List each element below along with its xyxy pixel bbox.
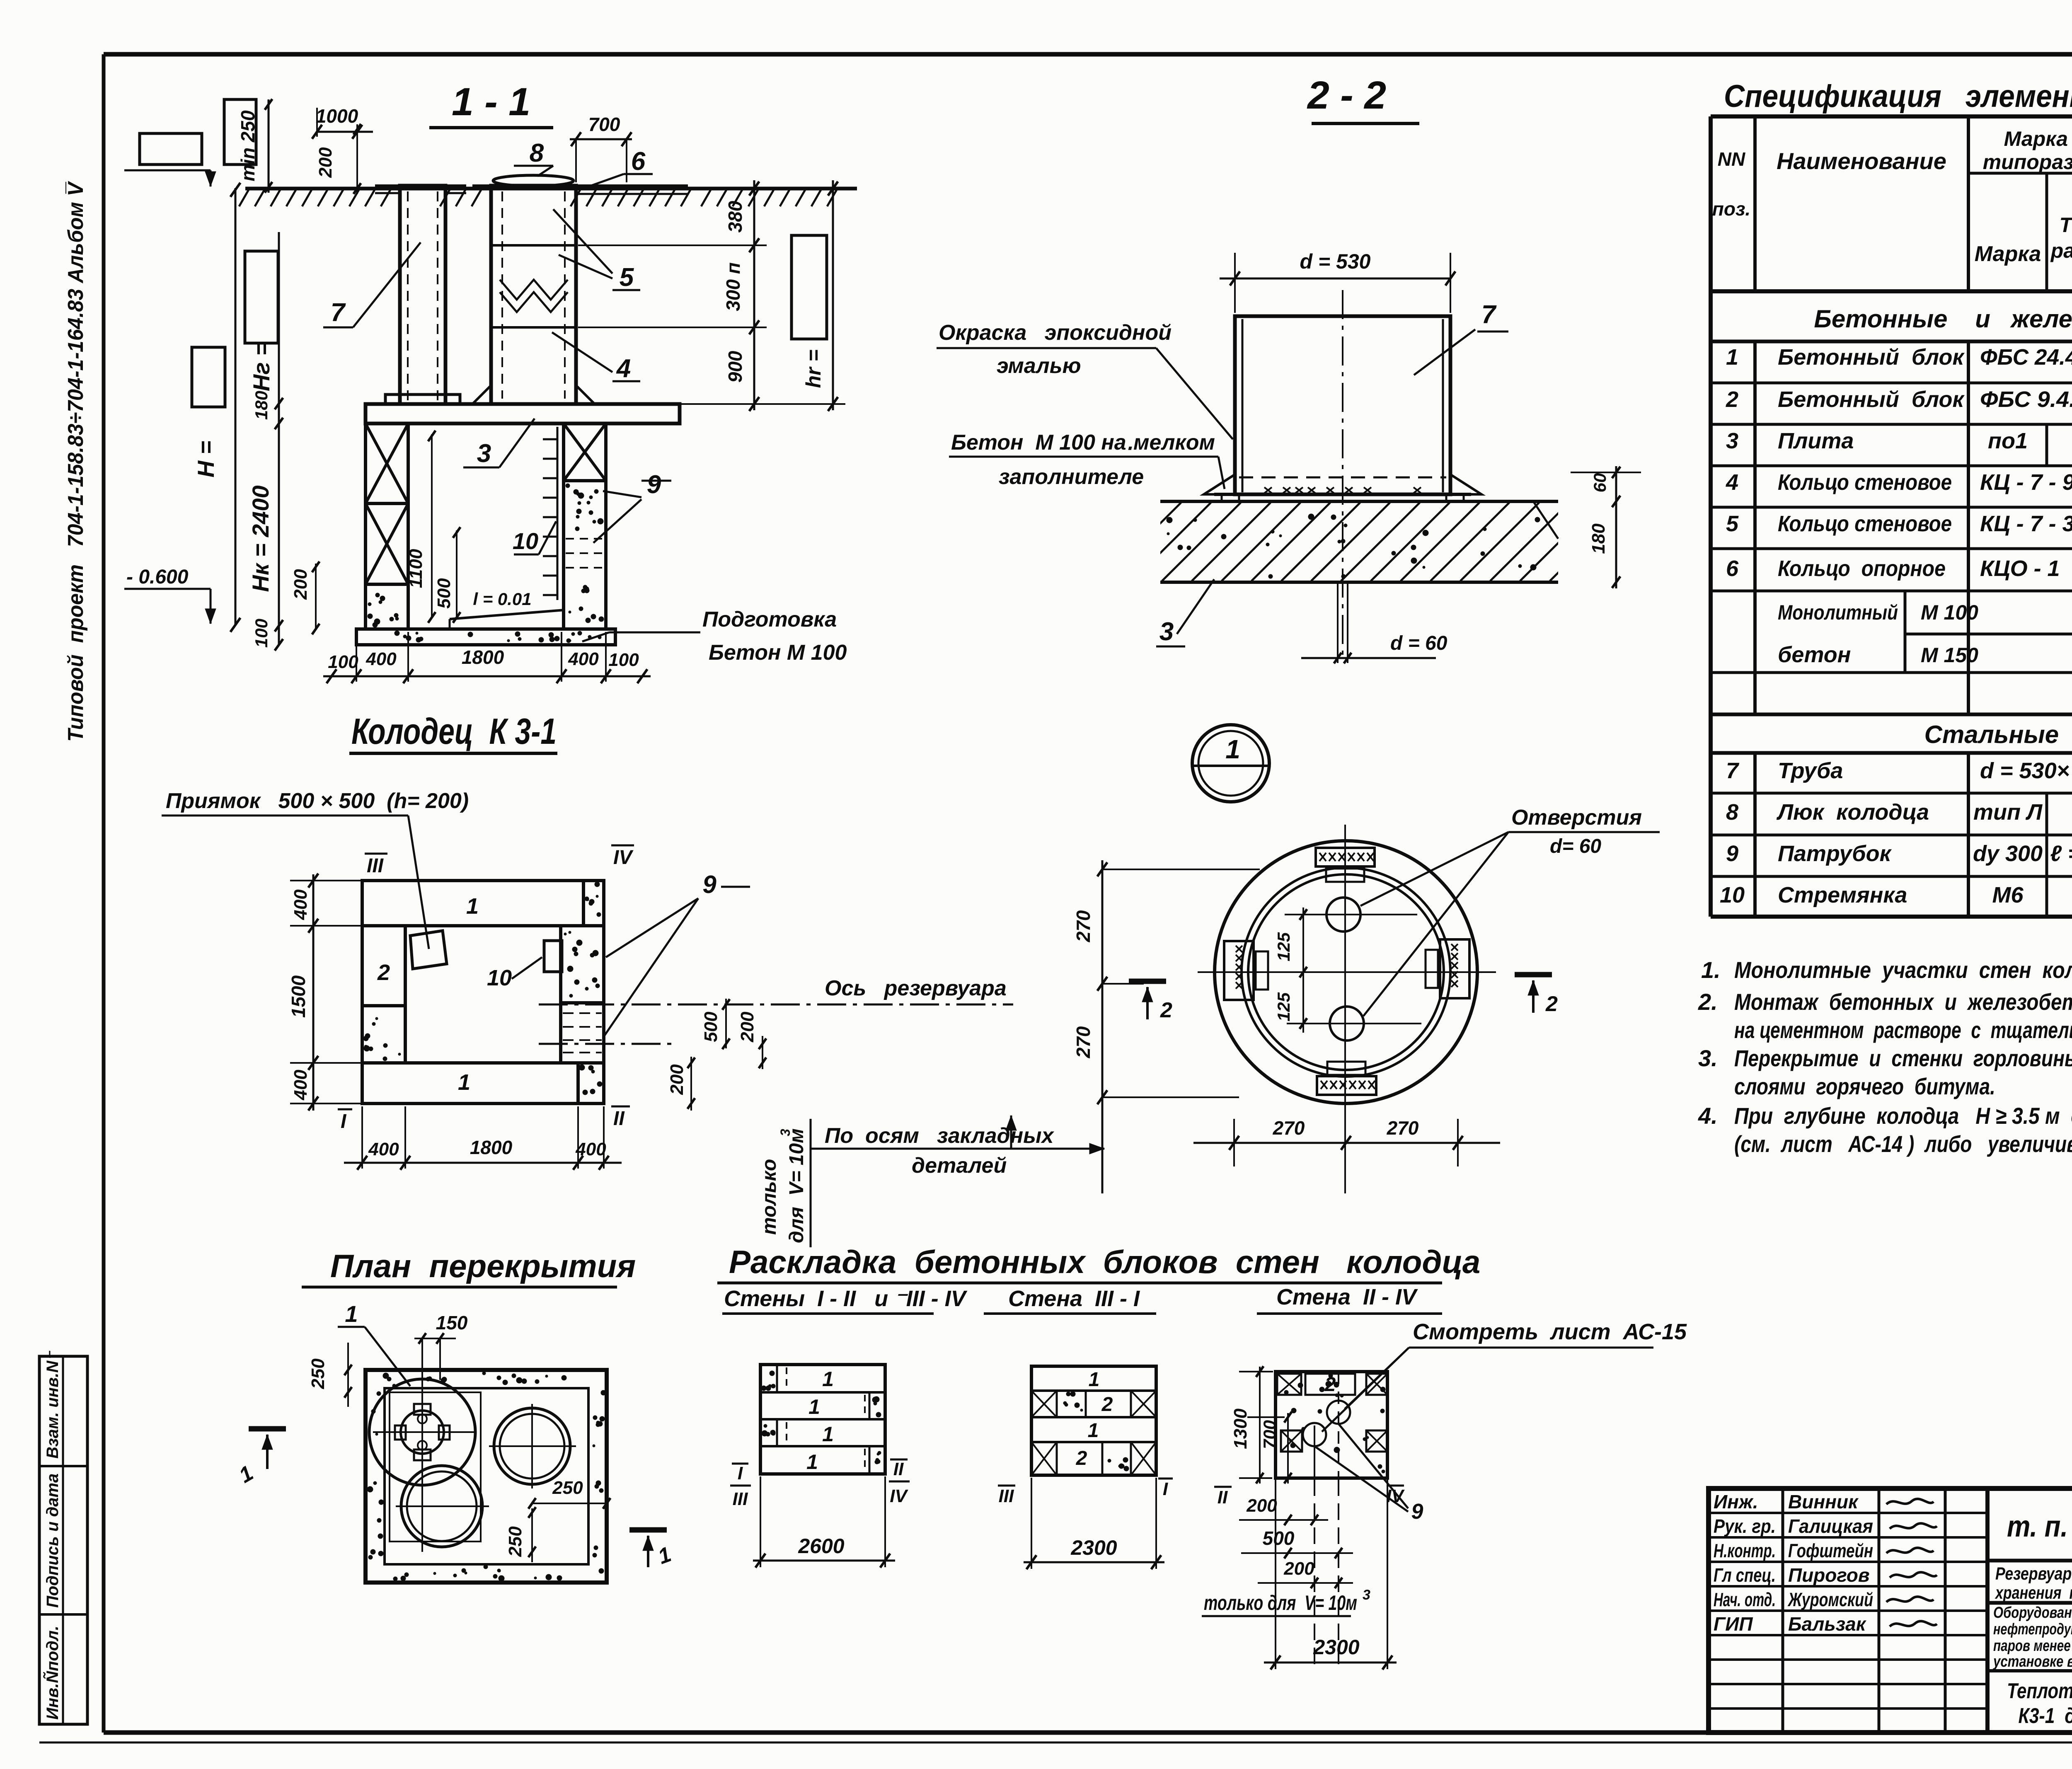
svg-text:Кольцо стеновое: Кольцо стеновое xyxy=(1778,470,1952,495)
svg-text:ФБС 24.4.6 -Т: ФБС 24.4.6 -Т xyxy=(1980,345,2072,370)
svg-text:200: 200 xyxy=(290,569,311,600)
svg-text:Марка и: Марка и xyxy=(2004,127,2072,150)
T2 mark left xyxy=(1129,981,1172,1022)
svg-text:250: 250 xyxy=(552,1478,583,1498)
svg-text:250: 250 xyxy=(308,1358,328,1389)
svg-text:Взам. инв.N⁻: Взам. инв.N⁻ xyxy=(44,1350,62,1459)
label 3 (2-2) xyxy=(1156,579,1214,646)
svg-text:1300: 1300 xyxy=(1230,1408,1251,1449)
dim 125/125 xyxy=(1274,907,1322,1033)
svg-text:ФБС 9.4.6 - Т: ФБС 9.4.6 - Т xyxy=(1980,387,2072,412)
svg-text:IV: IV xyxy=(613,847,634,869)
svg-text:КЦ - 7 - 3: КЦ - 7 - 3 xyxy=(1980,511,2072,536)
svg-text:400: 400 xyxy=(366,649,397,669)
svg-text:деталей: деталей xyxy=(912,1154,1007,1178)
svg-text:Ось резервуара: Ось резервуара xyxy=(825,976,1007,1000)
dim 200 lower left xyxy=(290,561,320,634)
dim 1100 inside xyxy=(406,431,436,623)
svg-text:ℓ = 600: ℓ = 600 xyxy=(2050,841,2072,866)
svg-text:КЦО - 1: КЦО - 1 xyxy=(1980,556,2060,581)
svg-text:Подпись и дата: Подпись и дата xyxy=(44,1474,62,1608)
svg-text:При глубине колодца Н ≥ 3.: При глубине колодца Н ≥ 3.5 м стены коло… xyxy=(1734,1103,2072,1129)
svg-text:700: 700 xyxy=(588,114,620,135)
svg-text:2: 2 xyxy=(1160,998,1172,1022)
svg-text:3: 3 xyxy=(477,439,491,468)
svg-text:II: II xyxy=(613,1108,625,1130)
svg-text:400: 400 xyxy=(568,649,599,669)
label podgotovka xyxy=(582,607,847,665)
svg-text:hr =: hr = xyxy=(802,349,825,388)
svg-text:1: 1 xyxy=(458,1070,470,1095)
svg-text:d = 60: d = 60 xyxy=(1390,632,1447,654)
label 7 xyxy=(323,242,421,327)
dim min 250 xyxy=(237,99,272,193)
wall I-II side labels xyxy=(730,1459,910,1509)
svg-text:эмалью: эмалью xyxy=(997,354,1081,378)
svg-text:М 150: М 150 xyxy=(1921,644,1978,667)
svg-text:Инж.: Инж. xyxy=(1714,1491,1758,1512)
svg-text:100: 100 xyxy=(608,650,639,670)
svg-text:II: II xyxy=(893,1459,904,1479)
svg-text:1: 1 xyxy=(345,1301,358,1327)
svg-text:5: 5 xyxy=(1726,511,1739,536)
po osyam zakladnyh xyxy=(811,1116,1104,1178)
svg-text:9: 9 xyxy=(647,470,661,499)
svg-text:только для V= 10м: только для V= 10м xyxy=(1204,1591,1357,1614)
svg-text:500: 500 xyxy=(701,1012,721,1042)
spec header texts xyxy=(1712,127,2072,276)
svg-text:2: 2 xyxy=(1726,387,1738,412)
ground line xyxy=(239,189,857,206)
svg-text:Бетон М 100: Бетон М 100 xyxy=(709,641,847,665)
svg-text:Колодец К 3-1: Колодец К 3-1 xyxy=(351,711,557,752)
svg-text:7: 7 xyxy=(1726,758,1740,783)
svg-text:нефтепродуктов с давлением нас: нефтепродуктов с давлением насыщенных xyxy=(1993,1621,2072,1638)
embedded plate left xyxy=(1224,941,1268,1000)
plan perekrytiya title xyxy=(302,1248,636,1287)
svg-text:1.: 1. xyxy=(1701,957,1721,983)
right dim chain 380/300p/900 xyxy=(578,180,845,411)
label 4 xyxy=(552,332,640,383)
svg-text:1: 1 xyxy=(1726,345,1738,370)
svg-text:I: I xyxy=(341,1111,347,1133)
label 8 xyxy=(514,139,553,176)
dim 700 xyxy=(570,114,632,182)
svg-text:3: 3 xyxy=(1159,617,1174,646)
label 6 xyxy=(586,147,653,187)
dim d=530 xyxy=(1220,250,1455,313)
floor slope line xyxy=(450,589,564,629)
hole bottom d60 xyxy=(1287,1007,1421,1041)
svg-text:3: 3 xyxy=(778,1129,793,1136)
svg-text:Винник: Винник xyxy=(1788,1491,1859,1512)
svg-text:1: 1 xyxy=(1225,734,1240,764)
dims 200/500/200 below II-IV xyxy=(1202,1479,1370,1670)
svg-text:размер: размер xyxy=(2050,239,2072,262)
svg-text:2300: 2300 xyxy=(1070,1536,1117,1559)
svg-text:IV: IV xyxy=(890,1486,908,1506)
svg-text:6: 6 xyxy=(631,147,646,176)
svg-text:Стена III - I: Стена III - I xyxy=(1008,1286,1140,1311)
svg-text:паров менее 200 мм рт ст. при: паров менее 200 мм рт ст. при подземной xyxy=(1993,1637,2072,1655)
svg-text:Пирогов: Пирогов xyxy=(1788,1564,1870,1586)
wall II-IV diagram xyxy=(1276,1372,1387,1479)
cover slab 3 xyxy=(366,404,680,423)
svg-text:180: 180 xyxy=(252,391,271,420)
stamp box A xyxy=(140,133,202,165)
okraska label xyxy=(937,321,1233,439)
section 2-2 title xyxy=(1307,73,1419,123)
wall I-II dim 2600 xyxy=(753,1476,895,1568)
svg-text:Приямок 500 × 500 (h= 200): Приямок 500 × 500 (h= 200) xyxy=(166,789,469,813)
lower pipe axis xyxy=(539,1043,678,1045)
svg-text:400: 400 xyxy=(575,1139,606,1159)
hatch circle A (manhole) xyxy=(369,1375,477,1552)
T1 mark bottom right xyxy=(629,1530,674,1569)
svg-text:Журомский: Журомский xyxy=(1787,1589,1873,1610)
svg-text:6: 6 xyxy=(1726,556,1739,581)
svg-text:500: 500 xyxy=(434,578,454,609)
svg-text:К3-1 для сухих грунтов: К3-1 для сухих грунтов xyxy=(2019,1704,2072,1728)
svg-text:Типо-: Типо- xyxy=(2060,213,2072,237)
svg-text:8: 8 xyxy=(530,139,544,167)
svg-text:слоями горячего битума.: слоями горячего битума. xyxy=(1734,1073,1995,1099)
svg-text:Инв.Ñподл.: Инв.Ñподл. xyxy=(43,1626,62,1720)
svg-text:бетон: бетон xyxy=(1778,642,1851,667)
label 10 xyxy=(513,521,556,554)
svg-text:Бетон М 100 на․мелком: Бетон М 100 на․мелком xyxy=(951,431,1215,455)
svg-text:4: 4 xyxy=(616,354,631,383)
object description cell xyxy=(1992,1604,2072,1670)
svg-text:2600: 2600 xyxy=(798,1534,844,1558)
dim 150 top xyxy=(414,1312,468,1380)
level -0.600 xyxy=(124,566,216,624)
svg-text:400: 400 xyxy=(290,1070,311,1101)
svg-text:380: 380 xyxy=(724,201,746,232)
svg-text:для V= 10м: для V= 10м xyxy=(786,1128,808,1243)
svg-text:Теплотехнический колодец: Теплотехнический колодец xyxy=(2007,1679,2072,1703)
svg-text:III: III xyxy=(367,855,384,877)
plan left dims 400/1500/400 xyxy=(288,874,369,1111)
pryamok pit xyxy=(410,931,447,969)
hole top d60 xyxy=(1285,898,1417,932)
spec rows steel xyxy=(1720,758,2072,910)
svg-text:1: 1 xyxy=(806,1450,818,1474)
doc number cell xyxy=(1987,1510,2072,1561)
dim line Hk xyxy=(247,232,283,651)
section mark circle 1 xyxy=(1192,725,1269,802)
svg-text:Бальзак: Бальзак xyxy=(1788,1613,1867,1635)
wall II-IV label II xyxy=(1214,1487,1232,1508)
svg-text:1000: 1000 xyxy=(316,105,358,127)
monolithic concrete rows xyxy=(1778,597,2072,667)
svg-text:Стремянка: Стремянка xyxy=(1778,883,1907,907)
well left wall blocks xyxy=(366,423,408,629)
svg-text:По осям закладных: По осям закладных xyxy=(825,1124,1055,1148)
svg-text:8: 8 xyxy=(1726,800,1738,825)
svg-text:Нач. отд.: Нач. отд. xyxy=(1714,1589,1776,1610)
svg-text:Отверстия: Отверстия xyxy=(1511,806,1642,830)
dim 1000 xyxy=(312,105,373,139)
svg-text:500: 500 xyxy=(1263,1527,1295,1549)
project name cell xyxy=(1987,1564,2072,1603)
smotret list AC-15 xyxy=(1322,1319,1687,1432)
circle C xyxy=(396,1466,489,1547)
svg-text:М6: М6 xyxy=(1992,883,2024,907)
signature roles xyxy=(1714,1491,1873,1635)
svg-text:Окраска эпоксидной: Окраска эпоксидной xyxy=(939,321,1172,345)
svg-text:ГИП: ГИП xyxy=(1714,1613,1753,1635)
dim 270/270 vertical xyxy=(1072,860,1260,1193)
svg-text:Наименование: Наименование xyxy=(1777,148,1946,174)
kolodec K3-1 title xyxy=(349,711,557,753)
svg-text:Патрубок: Патрубок xyxy=(1778,841,1892,866)
svg-text:1800: 1800 xyxy=(462,646,504,668)
ladder 10 xyxy=(543,427,557,600)
svg-text:10: 10 xyxy=(513,528,538,554)
right dim hr xyxy=(802,180,838,411)
K3-1 plan bottom wall xyxy=(362,1063,604,1104)
svg-text:7: 7 xyxy=(1481,300,1497,329)
section 1-1 title xyxy=(429,80,553,128)
signatures xyxy=(1886,1499,1937,1626)
wall III-I side labels xyxy=(998,1479,1173,1506)
svg-text:Плита: Плита xyxy=(1778,428,1854,453)
svg-text:9: 9 xyxy=(1726,841,1738,866)
label 7 (2-2) xyxy=(1414,300,1508,375)
dashed opening outline xyxy=(390,1392,481,1542)
svg-text:Оборудование резервуаров для х: Оборудование резервуаров для хранения xyxy=(1993,1604,2072,1621)
pipe 7 section 2-2 xyxy=(1204,290,1481,655)
pryamok label xyxy=(162,789,469,949)
embedded plate bottom xyxy=(1317,1062,1376,1095)
svg-text:270: 270 xyxy=(1387,1117,1419,1139)
svg-text:Стены I - II и ⁻III - IV: Стены I - II и ⁻III - IV xyxy=(724,1286,968,1311)
svg-text:d = 530: d = 530 xyxy=(1300,250,1371,273)
T1 mark left xyxy=(235,1429,286,1488)
svg-text:7: 7 xyxy=(331,298,346,327)
svg-text:d = 530× 7: d = 530× 7 xyxy=(1980,758,2072,783)
level mark arrow top xyxy=(124,170,216,186)
svg-text:1800: 1800 xyxy=(470,1137,513,1158)
dim 500 inside xyxy=(434,527,460,623)
dim 270/270 horizontal xyxy=(1193,1117,1500,1166)
label 3 xyxy=(463,419,535,468)
subtitle stena II-IV xyxy=(1257,1285,1442,1314)
svg-text:Типовой проект 704-1-158.83: Типовой проект 704-1-158.83÷704-1-164.83… xyxy=(64,181,88,742)
svg-text:II: II xyxy=(1218,1487,1228,1508)
svg-text:2: 2 xyxy=(1076,1447,1087,1469)
svg-text:2: 2 xyxy=(1324,1374,1336,1396)
dims 500/200 right of plan xyxy=(667,999,766,1111)
wall II-IV label IV 9 xyxy=(1314,1424,1423,1524)
svg-text:1100: 1100 xyxy=(406,549,426,588)
plan ladder 10 xyxy=(487,941,562,990)
tolko dlya V=10m3 (plan) xyxy=(758,1119,811,1247)
svg-text:2300: 2300 xyxy=(1313,1636,1359,1659)
svg-text:250: 250 xyxy=(505,1526,525,1557)
svg-text:1: 1 xyxy=(235,1461,257,1488)
stage/sheet cells xyxy=(1987,1602,2072,1733)
svg-text:Бетонные и железобетонные: Бетонные и железобетонные элементы xyxy=(1814,305,2072,333)
dim 2300 below II-IV xyxy=(1264,1479,1397,1670)
svg-text:1: 1 xyxy=(655,1542,674,1569)
dim 250 inner bottom xyxy=(505,1507,536,1562)
svg-text:150: 150 xyxy=(436,1312,468,1333)
plan bottom dims 400/1800/400 xyxy=(344,1106,622,1170)
svg-text:2: 2 xyxy=(377,960,390,985)
plan section marks xyxy=(338,845,634,1133)
svg-text:Кольцо стеновое: Кольцо стеновое xyxy=(1778,511,1952,536)
svg-text:т. п. 704 - 1 -158.83÷704-1-1: т. п. 704 - 1 -158.83÷704-1-164. 83АС xyxy=(2007,1510,2072,1543)
svg-text:по1: по1 xyxy=(1988,428,2028,453)
svg-text:200: 200 xyxy=(315,147,336,178)
svg-text:270: 270 xyxy=(1072,910,1094,942)
svg-text:Кольцо опорное: Кольцо опорное xyxy=(1778,556,1946,581)
T2 mark right xyxy=(1515,975,1558,1016)
svg-text:Н.контр.: Н.контр. xyxy=(1714,1540,1776,1561)
svg-text:Нк = 2400: Нк = 2400 xyxy=(247,485,274,592)
bottom prep slab xyxy=(356,629,615,645)
label 9 xyxy=(593,470,671,543)
svg-text:1 - 1: 1 - 1 xyxy=(452,80,530,124)
K3-1 plan right wall xyxy=(561,926,604,1063)
svg-text:установке в сухих и мокрых гр: установке в сухих и мокрых грунтах. xyxy=(1992,1653,2072,1670)
svg-text:1: 1 xyxy=(822,1423,834,1446)
svg-text:200: 200 xyxy=(667,1064,687,1095)
svg-text:2: 2 xyxy=(1101,1394,1113,1416)
svg-text:хранения нефтепродуктов емко: хранения нефтепродуктов емкостью 3, 5, 1… xyxy=(1995,1583,2072,1603)
svg-text:Галицкая: Галицкая xyxy=(1788,1515,1873,1537)
stamp box E xyxy=(792,235,827,339)
dim d=60 below xyxy=(1301,582,1447,663)
label 5 xyxy=(553,209,640,292)
svg-text:1: 1 xyxy=(1088,1420,1099,1442)
sidebar rotated stamp text xyxy=(64,181,88,742)
svg-text:Резервуары стальные горизон: Резервуары стальные горизонтальные цилин… xyxy=(1995,1564,2072,1584)
svg-text:Марка: Марка xyxy=(1975,242,2041,266)
svg-text:Смотреть лист АС-15: Смотреть лист АС-15 xyxy=(1413,1319,1687,1344)
svg-text:Монолитные участки стен кол: Монолитные участки стен колодца выполнят… xyxy=(1734,957,2072,983)
svg-text:Труба: Труба xyxy=(1778,758,1843,783)
manhole cover 8 xyxy=(493,175,574,186)
svg-text:поз.: поз. xyxy=(1712,198,1750,220)
svg-text:только: только xyxy=(758,1159,780,1235)
svg-text:Перекрытие и стенки горлови: Перекрытие и стенки горловины тщательно … xyxy=(1734,1045,2072,1071)
vent pipe 7 (left shaft) xyxy=(375,186,466,404)
dim line H left xyxy=(193,183,240,632)
stamp box D xyxy=(192,347,225,407)
svg-text:dy 300: dy 300 xyxy=(1973,841,2043,866)
neck shaft (rings 4/5/6) xyxy=(472,186,688,404)
dim 1300/700 left of II-IV xyxy=(1230,1366,1292,1483)
svg-text:5: 5 xyxy=(620,263,634,292)
svg-text:4: 4 xyxy=(1726,470,1738,495)
svg-text:200: 200 xyxy=(1283,1558,1314,1579)
svg-text:Рук. гр.: Рук. гр. xyxy=(1714,1515,1776,1537)
spec table title xyxy=(1722,79,2072,117)
sheet name cell xyxy=(2007,1679,2072,1728)
concrete elements band xyxy=(1814,305,2072,333)
svg-text:9: 9 xyxy=(702,871,716,898)
K3-1 plan top wall xyxy=(362,881,604,926)
svg-text:3.: 3. xyxy=(1698,1045,1718,1071)
svg-text:Монтаж бетонных и железобет: Монтаж бетонных и железобетонных констру… xyxy=(1734,989,2072,1015)
svg-text:10: 10 xyxy=(487,966,512,990)
raskladka main title xyxy=(717,1244,1480,1283)
svg-text:2 - 2: 2 - 2 xyxy=(1307,73,1386,117)
svg-text:Монолитный: Монолитный xyxy=(1778,601,1898,624)
svg-text:Гофштейн: Гофштейн xyxy=(1788,1540,1873,1561)
title block outline xyxy=(1709,1488,2072,1733)
svg-text:I: I xyxy=(738,1463,743,1483)
wall I-II diagram xyxy=(760,1365,885,1474)
svg-text:10: 10 xyxy=(1720,883,1745,907)
sidebar attribute table xyxy=(39,1350,87,1724)
svg-text:1: 1 xyxy=(466,894,479,919)
svg-text:тип Л: тип Л xyxy=(1973,800,2043,825)
svg-text:200: 200 xyxy=(1246,1496,1277,1516)
svg-text:270: 270 xyxy=(1273,1117,1305,1139)
stamp box C xyxy=(245,251,278,343)
embedded plate right xyxy=(1426,939,1469,998)
svg-text:типоразмер: типоразмер xyxy=(1983,150,2072,174)
svg-text:100: 100 xyxy=(252,619,271,648)
wall III-I dim 2300 xyxy=(1024,1478,1164,1569)
svg-text:Бетонный блок: Бетонный блок xyxy=(1778,387,1965,412)
svg-text:Стальные элементы: Стальные элементы xyxy=(1924,721,2072,748)
svg-text:125: 125 xyxy=(1274,932,1293,961)
steel elements band xyxy=(1924,721,2072,748)
embedded plate top xyxy=(1316,848,1375,882)
subtitle stena III-I xyxy=(984,1286,1156,1314)
beton M100 label xyxy=(949,431,1225,489)
spec rows concrete xyxy=(1726,345,2072,583)
svg-text:1500: 1500 xyxy=(288,975,309,1018)
svg-text:Спецификация элементов на: Спецификация элементов на монтажную схем… xyxy=(1724,79,2072,114)
svg-text:3: 3 xyxy=(1726,428,1738,453)
svg-text:- 0.600: - 0.600 xyxy=(126,566,189,588)
svg-text:КЦ - 7 - 9: КЦ - 7 - 9 xyxy=(1980,470,2072,495)
svg-text:(см. лист АС-14 ) либо у: (см. лист АС-14 ) либо увеличивать толщи… xyxy=(1734,1131,2072,1157)
svg-text:100: 100 xyxy=(328,652,358,672)
svg-text:Н =: Н = xyxy=(193,441,219,478)
svg-text:d= 60: d= 60 xyxy=(1550,835,1601,857)
svg-text:270: 270 xyxy=(1072,1026,1094,1058)
svg-text:400: 400 xyxy=(368,1139,399,1159)
notes xyxy=(1698,957,2072,1157)
round slab plan rings xyxy=(1198,825,1496,1193)
svg-text:Нг =: Нг = xyxy=(248,342,274,392)
svg-text:План перекрытия: План перекрытия xyxy=(330,1248,636,1284)
well right wall blocks xyxy=(564,423,606,629)
svg-text:300 п: 300 п xyxy=(722,262,744,311)
svg-text:1: 1 xyxy=(1089,1369,1100,1391)
svg-text:900: 900 xyxy=(724,351,746,382)
dim 200 top xyxy=(315,124,361,194)
svg-text:125: 125 xyxy=(1274,992,1293,1021)
svg-text:9: 9 xyxy=(1411,1500,1423,1524)
svg-text:I: I xyxy=(1163,1479,1168,1499)
svg-text:1: 1 xyxy=(822,1367,834,1391)
circle B xyxy=(489,1404,576,1488)
svg-text:NN: NN xyxy=(1718,148,1745,170)
svg-text:Бетонный блок: Бетонный блок xyxy=(1778,345,1965,370)
svg-text:3: 3 xyxy=(1363,1587,1370,1603)
svg-text:Раскладка бетонных блоков с: Раскладка бетонных блоков стен колодца xyxy=(729,1244,1480,1280)
svg-text:М 100: М 100 xyxy=(1921,601,1978,624)
svg-text:60: 60 xyxy=(1590,473,1610,493)
